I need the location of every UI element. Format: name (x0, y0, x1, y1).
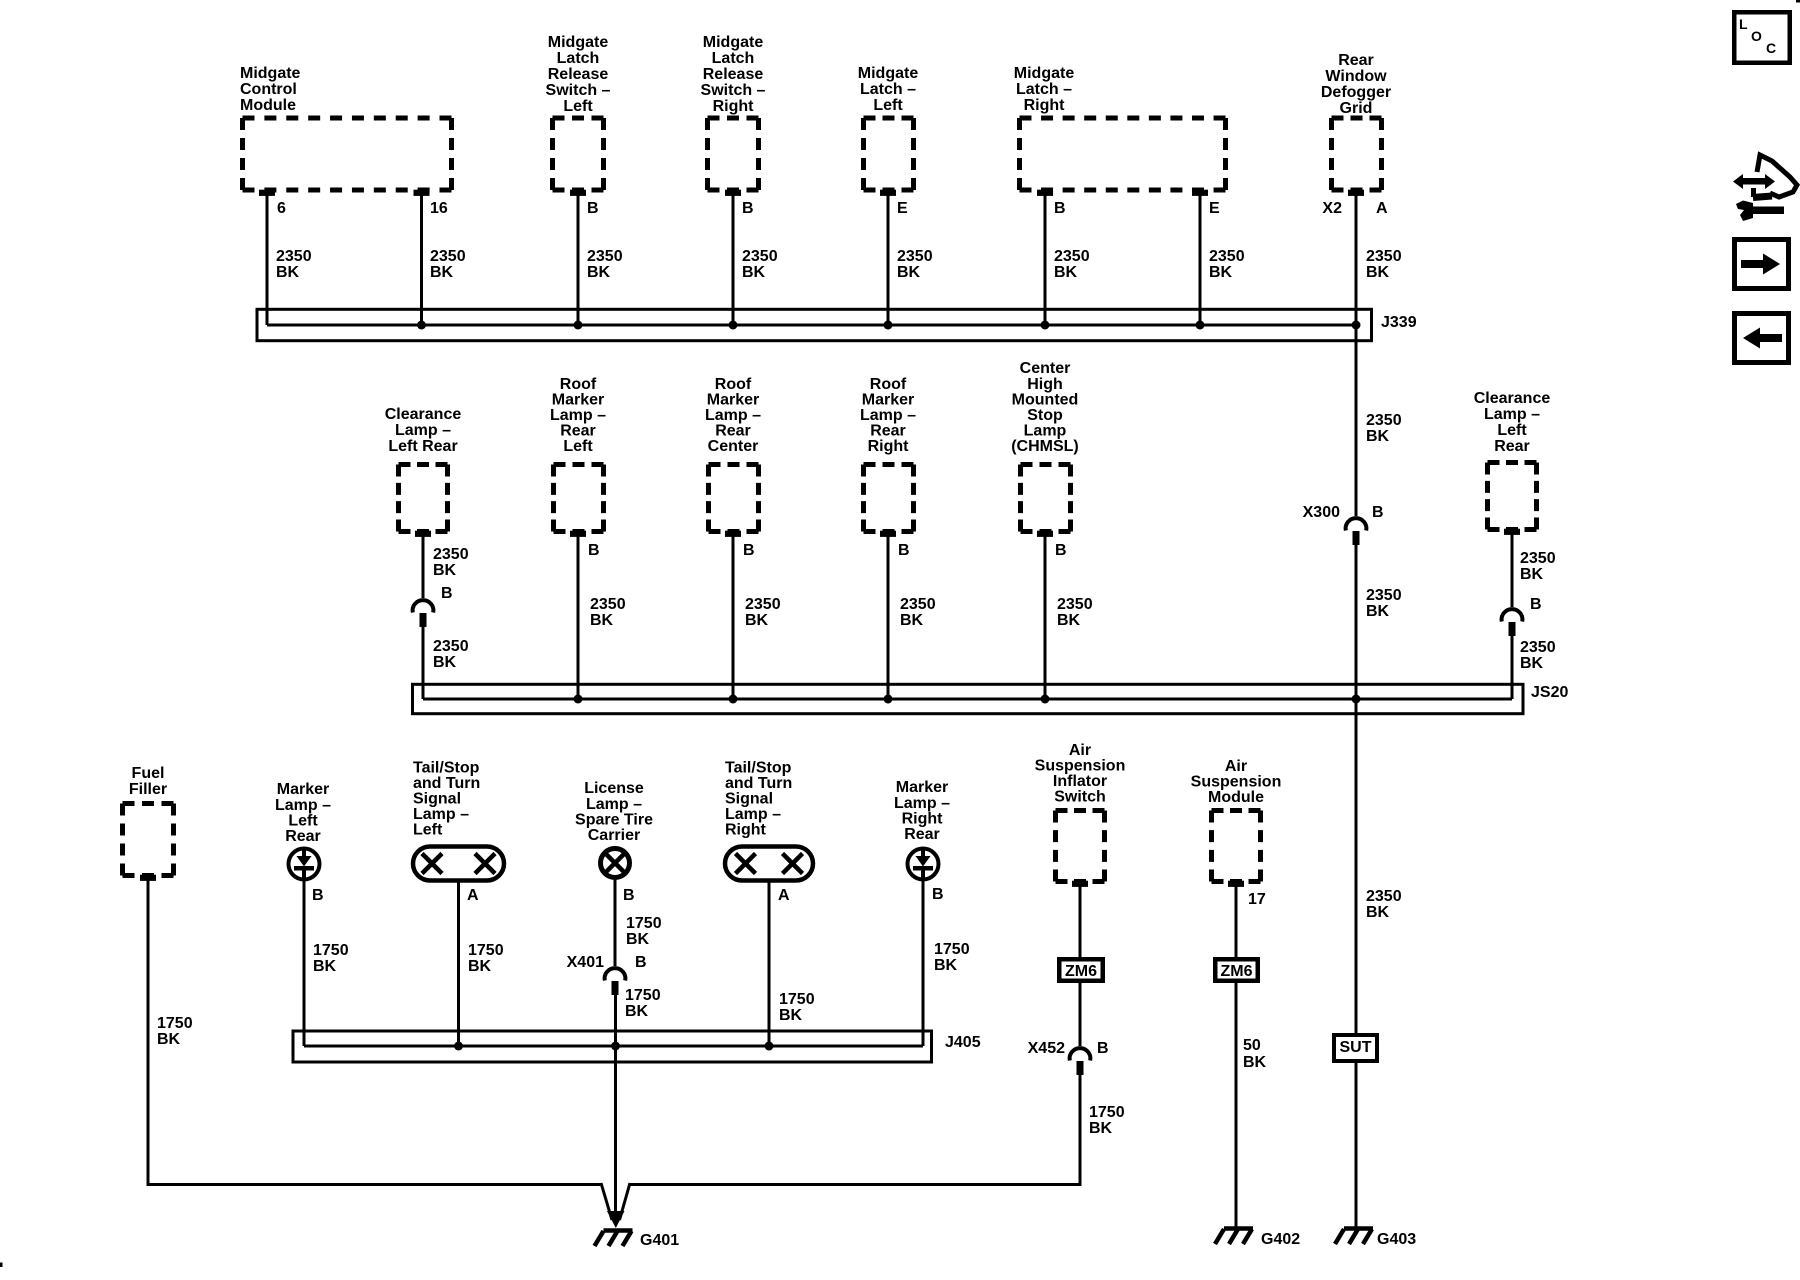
component Midgate Latch Release Switch - Left (546, 34, 611, 196)
svg-text:Left: Left (563, 98, 593, 115)
svg-text:Lamp –: Lamp – (860, 407, 916, 424)
junction defogger wire at JS20 (1352, 695, 1361, 704)
wire label 1750 BK (934, 941, 970, 974)
wire MCM pin 16 to splice J339 (2350 BK) (420, 195, 423, 325)
svg-text:BK: BK (1366, 904, 1390, 921)
wire label 2350 BK (590, 596, 626, 629)
wire clearance lamp to connector (2350 BK) (1511, 533, 1514, 607)
svg-text:Module: Module (1208, 789, 1264, 806)
wire ML-L pin E to splice J339 (2350 BK) (887, 195, 890, 325)
component Midgate Latch - Left (858, 65, 919, 196)
svg-text:Control: Control (240, 81, 297, 98)
splice pack J405 (293, 1031, 932, 1062)
wire RML-RL to splice JS20 (2350 BK) (577, 535, 580, 699)
wire ML-R pin E to splice J339 (2350 BK) (1199, 195, 1202, 325)
svg-text:Tail/Stop: Tail/Stop (725, 760, 792, 777)
svg-text:2350: 2350 (745, 596, 781, 613)
wire MCM pin 6 to splice J339 (2350 BK) (266, 195, 269, 325)
svg-text:J405: J405 (945, 1034, 981, 1051)
component Clearance Lamp - Left Rear (right) (1474, 390, 1551, 535)
svg-text:Lamp –: Lamp – (705, 407, 761, 424)
svg-text:Center: Center (1020, 360, 1071, 377)
junction MLRS-L wire at J339 (574, 321, 583, 330)
svg-text:BK: BK (468, 958, 492, 975)
LOC navigation box (1734, 12, 1790, 63)
svg-text:2350: 2350 (1057, 596, 1093, 613)
wire SUT to ground G403 (1355, 1063, 1358, 1228)
svg-text:B: B (441, 585, 453, 602)
page corner mark bottom left (0, 1263, 3, 1268)
svg-text:B: B (743, 542, 755, 559)
connector X452 (1070, 1048, 1091, 1075)
component Roof Marker Lamp - Rear Center (705, 376, 761, 537)
wire label 2350 BK (1366, 587, 1402, 620)
svg-text:Marker: Marker (277, 781, 329, 798)
svg-text:2350: 2350 (433, 638, 469, 655)
svg-text:BK: BK (626, 931, 650, 948)
svg-text:Rear: Rear (1338, 52, 1374, 69)
wire ZM6 to ground G402 (50 BK) (1235, 983, 1238, 1228)
svg-text:2350: 2350 (587, 248, 623, 265)
wire label 1750 BK (626, 915, 662, 948)
junction CHMSL wire at JS20 (1041, 695, 1050, 704)
svg-text:2350: 2350 (900, 596, 936, 613)
component Tail/Stop and Turn Signal Lamp - Left (413, 760, 504, 881)
svg-text:Rear: Rear (1494, 438, 1530, 455)
svg-text:Right: Right (713, 98, 755, 115)
svg-text:BK: BK (934, 957, 958, 974)
svg-text:Mounted: Mounted (1012, 392, 1079, 409)
svg-text:1750: 1750 (1089, 1104, 1125, 1121)
wire label 2350 BK (1366, 248, 1402, 281)
svg-text:E: E (1209, 200, 1220, 217)
wire label 2350 BK (587, 248, 623, 281)
wire label 2350 BK (1520, 550, 1556, 583)
svg-text:1750: 1750 (625, 987, 661, 1004)
wire X300 to splice JS20 (2350 BK) (1355, 545, 1358, 699)
svg-text:O: O (1751, 28, 1762, 44)
svg-text:B: B (635, 954, 647, 971)
svg-text:BK: BK (1520, 655, 1544, 672)
wire label 2350 BK (1057, 596, 1093, 629)
svg-text:A: A (467, 887, 479, 904)
svg-text:Suspension: Suspension (1035, 758, 1126, 775)
svg-text:BK: BK (897, 264, 921, 281)
svg-text:Signal: Signal (413, 791, 461, 808)
svg-text:G402: G402 (1261, 1231, 1300, 1248)
svg-text:2350: 2350 (590, 596, 626, 613)
svg-text:Midgate: Midgate (548, 34, 609, 51)
component Midgate Latch Release Switch - Right (701, 34, 766, 196)
page corner mark top right (1796, 0, 1800, 3)
wire connector to splice JS20 (2350 BK) (422, 627, 425, 699)
component Center High Mounted Stop Lamp (CHMSL) (1011, 360, 1079, 537)
wire label 1750 BK (468, 942, 504, 975)
wire X401 through splice J405 to ground G401 (1750 BK) (614, 995, 617, 1222)
svg-text:Lamp –: Lamp – (894, 795, 950, 812)
svg-text:Release: Release (548, 66, 609, 83)
wire marker lamp right to splice J405 (1750 BK) (922, 880, 925, 1046)
svg-text:A: A (1376, 200, 1388, 217)
svg-text:X452: X452 (1028, 1040, 1065, 1057)
svg-text:Midgate: Midgate (240, 65, 301, 82)
svg-text:Right: Right (725, 822, 767, 839)
wire label 2350 BK (1054, 248, 1090, 281)
svg-text:Rear: Rear (560, 423, 596, 440)
svg-text:Switch –: Switch – (546, 82, 611, 99)
component Fuel Filler (123, 765, 174, 881)
svg-text:Fuel: Fuel (132, 765, 165, 782)
svg-text:BK: BK (1520, 566, 1544, 583)
ground arrow into G401 (601, 1183, 630, 1228)
svg-text:Module: Module (240, 97, 296, 114)
wire inflator switch to ZM6 (1079, 886, 1082, 957)
svg-text:Rear: Rear (870, 423, 906, 440)
svg-text:BK: BK (313, 958, 337, 975)
svg-text:B: B (742, 200, 754, 217)
svg-text:B: B (623, 887, 635, 904)
svg-text:C: C (1766, 40, 1776, 56)
wire label 1750 BK (157, 1015, 193, 1048)
splice pack J339 (257, 309, 1372, 340)
wire JS20 to SUT (2350 BK) (1355, 699, 1358, 1033)
wire RML-RC to splice JS20 (2350 BK) (732, 535, 735, 699)
svg-text:Marker: Marker (707, 392, 759, 409)
svg-text:Midgate: Midgate (703, 34, 764, 51)
svg-text:B: B (1097, 1040, 1109, 1057)
svg-text:Suspension: Suspension (1191, 774, 1282, 791)
svg-text:B: B (898, 542, 910, 559)
svg-text:Defogger: Defogger (1321, 84, 1391, 101)
svg-text:B: B (588, 542, 600, 559)
svg-text:Latch: Latch (557, 50, 600, 67)
svg-text:50: 50 (1243, 1037, 1261, 1054)
svg-text:Air: Air (1069, 742, 1091, 759)
svg-text:Carrier: Carrier (588, 827, 640, 844)
svg-text:J339: J339 (1381, 314, 1417, 331)
option box ZM6 (inflator switch) (1059, 959, 1103, 981)
connector X401 (605, 968, 626, 995)
svg-text:16: 16 (430, 200, 448, 217)
wire label 1750 BK (625, 987, 661, 1020)
svg-text:2350: 2350 (897, 248, 933, 265)
svg-text:High: High (1027, 376, 1063, 393)
svg-text:6: 6 (277, 200, 286, 217)
svg-text:Left: Left (288, 813, 318, 830)
svg-text:Release: Release (703, 66, 764, 83)
component License Lamp - Spare Tire Carrier (lamp symbol) (575, 780, 653, 878)
svg-text:B: B (1372, 504, 1384, 521)
svg-text:2350: 2350 (1366, 412, 1402, 429)
wire label 2350 BK (1520, 639, 1556, 672)
wire ZM6 to connector X452 (1079, 983, 1082, 1046)
wire X452 to ground G401 (1750 BK) (630, 1075, 1082, 1186)
component Clearance Lamp - Left Rear (385, 406, 462, 537)
svg-text:B: B (932, 886, 944, 903)
connector X300 (1346, 518, 1367, 545)
junction MLRS-R wire at J339 (729, 321, 738, 330)
svg-text:Switch: Switch (1054, 789, 1106, 806)
wire label 2350 BK (745, 596, 781, 629)
svg-text:Switch –: Switch – (701, 82, 766, 99)
svg-text:Left: Left (413, 822, 443, 839)
svg-text:BK: BK (1057, 612, 1081, 629)
svg-text:2350: 2350 (1209, 248, 1245, 265)
svg-text:B: B (1054, 200, 1066, 217)
svg-text:BK: BK (587, 264, 611, 281)
svg-text:1750: 1750 (468, 942, 504, 959)
svg-text:Midgate: Midgate (858, 65, 919, 82)
svg-text:BK: BK (433, 562, 457, 579)
svg-text:Tail/Stop: Tail/Stop (413, 760, 480, 777)
svg-text:17: 17 (1248, 891, 1266, 908)
svg-text:B: B (312, 887, 324, 904)
svg-text:ZM6: ZM6 (1221, 963, 1253, 980)
svg-text:and Turn: and Turn (413, 775, 480, 792)
svg-text:2350: 2350 (433, 546, 469, 563)
svg-text:B: B (587, 200, 599, 217)
wire label 1750 BK (779, 991, 815, 1024)
wire label 2350 BK (430, 248, 466, 281)
wire tail lamp right to splice J405 (1750 BK) (768, 881, 771, 1046)
svg-text:(CHMSL): (CHMSL) (1011, 438, 1079, 455)
svg-text:BK: BK (433, 654, 457, 671)
svg-text:E: E (897, 200, 908, 217)
connector on right clearance lamp wire (1502, 609, 1523, 636)
ground G403 (1335, 1229, 1416, 1249)
wire CHMSL to splice JS20 (2350 BK) (1044, 535, 1047, 699)
svg-text:Lamp –: Lamp – (275, 797, 331, 814)
svg-text:BK: BK (430, 264, 454, 281)
svg-text:JS20: JS20 (1531, 684, 1568, 701)
junction tail lamp right wire at J405 (765, 1042, 774, 1051)
svg-text:Marker: Marker (862, 392, 914, 409)
svg-text:Window: Window (1325, 68, 1387, 85)
svg-text:G401: G401 (640, 1232, 679, 1249)
svg-text:Left: Left (873, 97, 903, 114)
wire J339 to connector X300 (2350 BK) (1355, 325, 1358, 516)
svg-text:BK: BK (1054, 264, 1078, 281)
svg-text:2350: 2350 (742, 248, 778, 265)
svg-text:BK: BK (157, 1031, 181, 1048)
svg-text:Rear: Rear (285, 828, 321, 845)
wire label 1750 BK (313, 942, 349, 975)
component Roof Marker Lamp - Rear Left (550, 376, 606, 537)
svg-text:X2: X2 (1322, 200, 1342, 217)
svg-text:1750: 1750 (626, 915, 662, 932)
svg-text:Left: Left (1497, 422, 1527, 439)
junction MCM pin 16 wire at J339 (417, 321, 426, 330)
svg-text:Rear: Rear (904, 826, 940, 843)
junction tail lamp left wire at J405 (454, 1042, 463, 1051)
svg-text:B: B (1055, 542, 1067, 559)
ground G402 (1215, 1229, 1300, 1249)
svg-text:X300: X300 (1303, 504, 1340, 521)
svg-text:Clearance: Clearance (385, 406, 462, 423)
component Air Suspension Inflator Switch (1035, 742, 1126, 887)
wire license lamp to connector X401 (1750 BK) (614, 878, 617, 966)
svg-text:Right: Right (868, 438, 910, 455)
svg-text:2350: 2350 (1366, 587, 1402, 604)
wire label 2350 BK (433, 638, 469, 671)
svg-text:Clearance: Clearance (1474, 390, 1551, 407)
svg-text:Marker: Marker (896, 779, 948, 796)
svg-text:BK: BK (1209, 264, 1233, 281)
component Marker Lamp - Right Rear (lamp symbol) (894, 779, 950, 880)
svg-text:A: A (778, 887, 790, 904)
svg-text:and Turn: and Turn (725, 775, 792, 792)
svg-text:BK: BK (900, 612, 924, 629)
wire label 50 BK (1243, 1037, 1267, 1071)
svg-text:Lamp: Lamp (1024, 423, 1067, 440)
wire clearance lamp to connector (2350 BK) (422, 535, 425, 598)
svg-text:Midgate: Midgate (1014, 65, 1075, 82)
component Roof Marker Lamp - Rear Right (860, 376, 916, 537)
svg-text:BK: BK (1366, 603, 1390, 620)
svg-text:BK: BK (625, 1003, 649, 1020)
svg-text:2350: 2350 (1054, 248, 1090, 265)
svg-text:L: L (1739, 16, 1748, 32)
option box SUT (1334, 1035, 1377, 1061)
wire label 2350 BK (433, 546, 469, 579)
wire defogger pin A down to splice J339 (2350 BK) (1355, 195, 1358, 325)
svg-text:X401: X401 (567, 954, 604, 971)
svg-text:2350: 2350 (430, 248, 466, 265)
svg-text:2350: 2350 (1520, 639, 1556, 656)
svg-text:1750: 1750 (779, 991, 815, 1008)
svg-text:Rear: Rear (715, 423, 751, 440)
svg-text:Latch: Latch (712, 50, 755, 67)
svg-text:Signal: Signal (725, 791, 773, 808)
svg-text:SUT: SUT (1340, 1039, 1372, 1056)
junction RML-RR wire at JS20 (884, 695, 893, 704)
junction ML-R pin B wire at J339 (1041, 321, 1050, 330)
svg-text:1750: 1750 (934, 941, 970, 958)
wire label 2350 BK (276, 248, 312, 281)
svg-text:1750: 1750 (157, 1015, 193, 1032)
svg-text:Marker: Marker (552, 392, 604, 409)
junction RML-RL wire at JS20 (574, 695, 583, 704)
svg-text:2350: 2350 (1520, 550, 1556, 567)
repair icon (double arrow, bent arrow and wrench) (1733, 155, 1797, 221)
svg-text:ZM6: ZM6 (1065, 963, 1097, 980)
component Air Suspension Module (1191, 758, 1282, 887)
svg-text:2350: 2350 (1366, 248, 1402, 265)
svg-text:Right: Right (902, 811, 944, 828)
wire RML-RR to splice JS20 (2350 BK) (887, 535, 890, 699)
svg-text:Lamp –: Lamp – (586, 796, 642, 813)
svg-text:BK: BK (590, 612, 614, 629)
wire label 2350 BK (1366, 412, 1402, 445)
component Midgate Latch - Right (1014, 65, 1226, 196)
splice pack JS20 (413, 684, 1524, 713)
svg-text:Center: Center (708, 438, 759, 455)
svg-text:1750: 1750 (313, 942, 349, 959)
svg-text:BK: BK (745, 612, 769, 629)
wire label 2350 BK (900, 596, 936, 629)
svg-text:Grid: Grid (1340, 100, 1373, 117)
svg-text:Lamp –: Lamp – (413, 806, 469, 823)
svg-text:Filler: Filler (129, 781, 167, 798)
svg-text:Left: Left (563, 438, 593, 455)
svg-text:Spare Tire: Spare Tire (575, 812, 653, 829)
svg-text:Lamp –: Lamp – (725, 806, 781, 823)
wire label 2350 BK (742, 248, 778, 281)
svg-text:Roof: Roof (870, 376, 907, 393)
back arrow box (1735, 314, 1789, 363)
junction license lamp wire at J405 (611, 1042, 620, 1051)
svg-text:Right: Right (1024, 97, 1066, 114)
wire tail lamp left to splice J405 (1750 BK) (457, 881, 460, 1046)
junction ML-L wire at J339 (884, 321, 893, 330)
svg-text:B: B (1530, 596, 1542, 613)
svg-text:Roof: Roof (560, 376, 597, 393)
svg-text:Lamp –: Lamp – (550, 407, 606, 424)
svg-text:Stop: Stop (1027, 407, 1063, 424)
wire label 2350 BK (1209, 248, 1245, 281)
junction ML-R pin E wire at J339 (1196, 321, 1205, 330)
svg-text:Left Rear: Left Rear (388, 438, 457, 455)
svg-text:License: License (584, 780, 644, 797)
svg-text:BK: BK (742, 264, 766, 281)
svg-text:Inflator: Inflator (1053, 773, 1107, 790)
svg-text:Air: Air (1225, 758, 1247, 775)
ground G401 (595, 1231, 680, 1250)
svg-text:G403: G403 (1377, 1231, 1416, 1248)
svg-text:Roof: Roof (715, 376, 752, 393)
junction defogger wire at J339 (1352, 321, 1361, 330)
component Tail/Stop and Turn Signal Lamp - Right (725, 760, 813, 881)
svg-text:Latch –: Latch – (1016, 81, 1072, 98)
svg-text:Lamp –: Lamp – (1484, 406, 1540, 423)
option box ZM6 (air suspension module) (1215, 959, 1258, 981)
junction RML-RC wire at JS20 (729, 695, 738, 704)
svg-text:BK: BK (1366, 428, 1390, 445)
wire label 2350 BK (897, 248, 933, 281)
wire MLRS-R pin B to splice J339 (2350 BK) (732, 195, 735, 325)
svg-text:2350: 2350 (1366, 888, 1402, 905)
forward arrow box (1735, 240, 1789, 289)
svg-text:BK: BK (1243, 1054, 1267, 1071)
wire fuel filler to ground G401 (1750 BK) (148, 880, 601, 1186)
svg-text:BK: BK (779, 1007, 803, 1024)
svg-text:Lamp –: Lamp – (395, 422, 451, 439)
component Midgate Control Module (240, 65, 452, 196)
wire MLRS-L pin B to splice J339 (2350 BK) (577, 195, 580, 325)
wire label 2350 BK (1366, 888, 1402, 921)
wire ML-R pin B to splice J339 (2350 BK) (1044, 195, 1047, 325)
wire marker lamp left to splice J405 (1750 BK) (303, 880, 306, 1046)
wire connector to splice JS20 (2350 BK) (1511, 636, 1514, 699)
svg-text:BK: BK (276, 264, 300, 281)
component Rear Window Defogger Grid (1321, 52, 1391, 196)
wire ASM pin 17 to ZM6 (1235, 886, 1238, 957)
svg-text:Latch –: Latch – (860, 81, 916, 98)
svg-text:BK: BK (1089, 1120, 1113, 1137)
svg-text:2350: 2350 (276, 248, 312, 265)
connector on left clearance lamp wire (413, 600, 434, 627)
component Marker Lamp - Left Rear (lamp symbol) (275, 781, 331, 880)
svg-text:BK: BK (1366, 264, 1390, 281)
wire label 1750 BK (1089, 1104, 1125, 1137)
